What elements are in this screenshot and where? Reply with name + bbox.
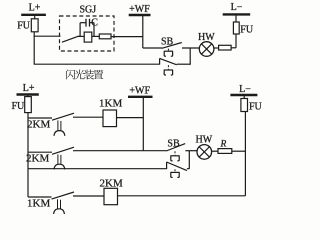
fuse FU (top left) xyxy=(31,19,38,32)
wire: fuse to L- rail xyxy=(235,14,237,22)
wire: coil to resistor xyxy=(92,35,100,37)
wire: SB right to lamp xyxy=(185,150,197,152)
wire: SB parallel riser (bottom circuit) xyxy=(188,151,190,169)
wire: loop top left lead xyxy=(80,22,86,24)
wire: NC contact to riser xyxy=(177,63,190,65)
wire: branch 3 to coil 2KM xyxy=(73,195,104,197)
svg-text:2KM: 2KM xyxy=(27,119,50,131)
wire: right bus vertical xyxy=(244,112,246,196)
pushbutton actuator (top contact, bottom circuit) xyxy=(174,151,176,156)
wire: bypass rail under box xyxy=(34,63,160,65)
svg-text:FU: FU xyxy=(240,25,254,36)
actuator linkage (branch 1) xyxy=(57,120,59,130)
wire: loop top right lead xyxy=(90,22,94,24)
wire: +WF stem down to SB row xyxy=(142,97,144,151)
svg-text:SGJ: SGJ xyxy=(80,4,97,15)
wire: resistor out of box to +WF stem xyxy=(111,36,143,38)
wire: rail to fuse xyxy=(27,95,29,97)
wire: direct rail (bus to SB NC) xyxy=(28,168,167,170)
wire: fuse to L- rail xyxy=(243,95,245,99)
wire: +WF stem down xyxy=(142,15,144,48)
wire: blade tip to coil xyxy=(78,35,85,37)
svg-text:2KM: 2KM xyxy=(26,153,49,165)
wire: resistor to L- riser xyxy=(231,47,236,49)
wire: branch 1 to coil xyxy=(73,116,103,118)
svg-text:L−: L− xyxy=(239,84,251,95)
wire: loop right riser xyxy=(93,23,95,37)
svg-text:FU: FU xyxy=(17,20,31,31)
actuator linkage (branch 2) xyxy=(57,154,59,164)
pushbutton actuator (bottom contact) xyxy=(167,65,169,70)
resistor (top right) xyxy=(219,45,232,50)
svg-text:L+: L+ xyxy=(29,3,41,14)
wire: coil 2KM to right bus xyxy=(118,195,246,197)
fuse FU (top right) xyxy=(233,22,239,34)
contact 2KM (branch 2) NO blade xyxy=(52,147,74,154)
svg-text:FU: FU xyxy=(249,101,263,112)
pushbutton SB NO contact (bottom circuit) xyxy=(166,144,185,151)
fuse FU (bottom left) xyxy=(25,97,32,113)
pushbutton actuator (top contact) xyxy=(167,49,169,52)
wire: lamp to resistor xyxy=(214,47,219,49)
caption: flasher unit (Chinese) xyxy=(66,69,75,79)
pushbutton SB NC contact (bottom circuit) xyxy=(166,162,168,169)
svg-text:HW: HW xyxy=(196,135,213,146)
switch contact inside SGJ unit xyxy=(62,36,79,42)
pushbutton actuator (bottom contact, bottom circuit) xyxy=(174,169,176,172)
wire: branch 1 stub xyxy=(28,117,52,119)
wire: resistor to right bus xyxy=(232,150,246,152)
svg-text:L−: L− xyxy=(231,2,243,13)
resistor (SGJ internal) xyxy=(99,34,111,39)
contact 2KM (branch 1) NO blade xyxy=(52,113,74,120)
svg-text:1KM: 1KM xyxy=(99,98,122,110)
svg-text:1KM: 1KM xyxy=(27,198,50,210)
wire into flasher box xyxy=(34,35,61,37)
wire: left bus down xyxy=(27,113,29,197)
wire: parallel loop left riser xyxy=(79,23,81,37)
capacitor C xyxy=(85,19,87,27)
relay coil SGJ xyxy=(84,32,92,42)
wire: branch 2 to SB xyxy=(73,150,166,152)
wire: branch 3 stub xyxy=(28,196,52,198)
svg-text:R: R xyxy=(220,139,227,149)
pushbutton SB NO contact (top) xyxy=(162,43,182,49)
pushbutton SB NC contact (bottom) xyxy=(159,58,161,64)
wire: branch 2 stub xyxy=(28,151,52,153)
wire: SB right to lamp xyxy=(182,47,199,49)
dashed enclosure SGJ flasher unit xyxy=(60,16,115,51)
wire: coil 1KM to +WF stem xyxy=(117,117,144,119)
svg-text:+WF: +WF xyxy=(129,4,150,15)
contact 1KM (branch 3) NO blade xyxy=(52,192,75,199)
wire: corner to SB xyxy=(143,47,163,49)
actuator linkage (branch 3) xyxy=(57,199,59,209)
svg-text:FU: FU xyxy=(12,101,26,112)
wire L+ to fuse xyxy=(34,15,36,19)
svg-text:L+: L+ xyxy=(23,83,35,94)
wire: fuse down to junction, branch to SGJ box and bypass xyxy=(33,32,35,64)
wire: lamp to resistor R xyxy=(212,150,218,152)
wire: SB parallel riser xyxy=(189,48,191,65)
svg-text:+WF: +WF xyxy=(129,86,150,97)
svg-text:2KM: 2KM xyxy=(100,177,123,189)
fuse FU (bottom right) xyxy=(241,99,248,112)
